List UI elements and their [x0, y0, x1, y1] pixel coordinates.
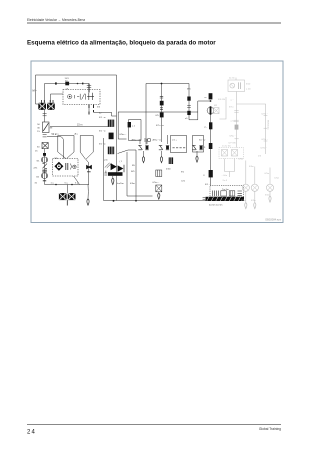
- footer rule: [27, 423, 281, 426]
- battery G1 symbol: [41, 157, 47, 163]
- tick marks below S1: [43, 135, 47, 137]
- tick below diode: [87, 171, 91, 173]
- svg-text:( m +: ( m +: [172, 140, 178, 142]
- svg-text:6/2w: 6/2w: [241, 200, 246, 202]
- svg-text:6/7w ~: 6/7w ~: [262, 139, 269, 141]
- X3 feed: [66, 185, 68, 194]
- relay K1 pin 87 tip2: [93, 110, 95, 112]
- tick marks 15: [43, 114, 47, 116]
- transistor T2: [118, 165, 124, 172]
- ghost lamp1 ground: [245, 203, 247, 209]
- module A7 top blobs: [109, 133, 114, 140]
- svg-text:a 2m: a 2m: [246, 89, 251, 91]
- relay K1 pin 87: [93, 105, 95, 109]
- ghost main column: [236, 92, 238, 148]
- wire pi right leg Z: [189, 84, 198, 120]
- relay K2 housing B: [80, 136, 93, 153]
- ghost dashed box: [219, 148, 244, 159]
- svg-text:6/5w: 6/5w: [239, 159, 244, 161]
- capacitor-like double bar: [42, 170, 47, 172]
- relay K1 terminal bars: [87, 93, 94, 100]
- ghost L link: [220, 97, 227, 119]
- motor stub comp: [205, 93, 213, 99]
- ghost lamp1 tail: [245, 191, 247, 202]
- svg-text:~ 6/m: ~ 6/m: [222, 175, 228, 177]
- comp P dark: [209, 122, 212, 129]
- wire bus 50 stub: [51, 93, 64, 95]
- inner unit comp: [128, 122, 131, 127]
- ghost lamp3 ground: [269, 196, 271, 202]
- starter lock X-box: [42, 143, 48, 149]
- ghost relay M2 box: [214, 108, 219, 114]
- svg-text:6/1 ~: 6/1 ~: [205, 184, 211, 186]
- bottom bus 31: [104, 200, 208, 202]
- ground teardrop row4: [196, 151, 198, 162]
- transistor T1: [111, 163, 117, 170]
- row comp dark k: [169, 157, 173, 164]
- ghost dbox pins: [225, 159, 235, 178]
- funnel wires into M5 connector: [58, 152, 74, 159]
- svg-text:6/2w: 6/2w: [265, 195, 270, 197]
- junction dot bus31 b: [71, 184, 73, 186]
- ghost unit bars: [238, 82, 240, 89]
- relay K1 coil symbol: [68, 94, 72, 98]
- svg-text:6/5 GN: 6/5 GN: [218, 99, 225, 101]
- svg-text:m 2w 5m: m 2w 5m: [222, 146, 231, 148]
- svg-text:hm/5m: hm/5m: [117, 183, 124, 185]
- wire S1 terminal 50 run: [47, 137, 64, 159]
- valve aux circle: [73, 165, 77, 169]
- ghost lamp H2: [251, 184, 258, 191]
- header rule: [27, 22, 281, 25]
- S comp dark2: [160, 112, 164, 117]
- svg-text:4w 6m 1w 5m: 4w 6m 1w 5m: [209, 205, 223, 207]
- S tick2: [160, 108, 163, 110]
- right inner column comp1: [156, 170, 162, 177]
- ghost dbox comp2: [232, 150, 238, 157]
- bar left marks: [203, 197, 206, 199]
- fuse F3: [108, 147, 114, 155]
- right inner column comp2: [156, 185, 162, 192]
- ghost lamp H3: [266, 184, 273, 191]
- fuse diagonal element: [43, 164, 48, 169]
- ghost branch east: [237, 104, 266, 154]
- svg-text:24: 24: [27, 430, 36, 436]
- svg-text:5w ~w: 5w ~w: [199, 140, 206, 142]
- svg-text:Eletricidade Veicular → Merced: Eletricidade Veicular → Mercedes-Benz: [27, 18, 85, 22]
- comp switch9: [204, 143, 212, 149]
- ghost lamp feed3: [269, 168, 271, 185]
- svg-text:6/1 ~w: 6/1 ~w: [99, 131, 106, 133]
- wire top supply bus 30: [36, 74, 117, 76]
- diode pair on drop: [86, 165, 92, 170]
- svg-text:m: m: [205, 97, 207, 99]
- wire drop X1 pin a: [44, 84, 46, 103]
- svg-text:a 5w: a 5w: [231, 121, 236, 123]
- fuse F1: [65, 82, 69, 86]
- battery G2 symbol: [41, 173, 47, 179]
- Tm comp2: [221, 191, 227, 196]
- svg-text:6/Tu ~w: 6/Tu ~w: [156, 125, 164, 127]
- wire relay output to main column: [94, 112, 117, 116]
- chain end tick: [43, 180, 46, 182]
- ghost col tick3: [235, 138, 239, 140]
- valve coil bars: [66, 163, 68, 170]
- right inner column teardrop: [158, 192, 160, 199]
- figure frame: [31, 61, 283, 223]
- motor M5 diamond: [54, 162, 63, 171]
- inner unit box: [129, 120, 142, 141]
- connector ticks on relay feed: [87, 86, 91, 88]
- ghost col comp: [235, 125, 239, 130]
- svg-text:6/1w: 6/1w: [265, 173, 270, 175]
- ignition switch S1: [43, 122, 53, 133]
- wire to motor branch: [198, 100, 211, 102]
- wire chain column: [44, 149, 46, 185]
- sensor column S: [161, 84, 163, 143]
- chain blob: [43, 153, 46, 156]
- svg-text:C/m: C/m: [181, 181, 185, 183]
- Tm comp1: [213, 191, 219, 197]
- svg-text:6/1 ~w: 6/1 ~w: [99, 117, 106, 119]
- wire valve pin arc to bus31: [74, 176, 80, 185]
- ghost top unit box: [228, 80, 245, 92]
- main column fuse feed: [116, 75, 118, 201]
- comp on feed leg2: [187, 111, 190, 115]
- Tm terminal dashed box: [210, 186, 244, 198]
- connector bar hatched: [206, 197, 245, 201]
- ghost col ticks: [234, 110, 238, 112]
- svg-text:Global Training: Global Training: [259, 427, 281, 431]
- connector X1 pin stubs: [42, 100, 54, 103]
- ghost dbox comp1: [222, 150, 228, 157]
- wire ignition feed: [44, 110, 46, 122]
- ghost unit coil: [230, 83, 235, 88]
- ghost lamp H1: [242, 184, 249, 191]
- wire ground bus 31: [45, 184, 90, 186]
- wire left drop to connector X1: [36, 75, 39, 104]
- motor M2 circle: [207, 106, 214, 114]
- ground teardrop row1: [142, 151, 144, 163]
- module box left edge: [118, 112, 126, 139]
- svg-text:6/1 ~w: 6/1 ~w: [99, 144, 106, 146]
- right feed bus pi: [146, 83, 189, 85]
- module left edge: [103, 138, 105, 201]
- connector X3 plug pair: [59, 193, 76, 200]
- comp on feed leg: [187, 97, 190, 101]
- fuse F2: [108, 120, 114, 127]
- svg-text:4/5m: 4/5m: [166, 169, 171, 171]
- junction marks bus2: [55, 82, 83, 84]
- ghost lamp feed1: [245, 161, 247, 185]
- relay K1 pin 86 tip: [88, 84, 90, 93]
- ghost lamp3 tail: [269, 191, 271, 196]
- svg-text:Esquema elétrico da alimentaçã: Esquema elétrico da alimentação, bloquei…: [27, 39, 216, 46]
- wire diag to mid column: [118, 150, 137, 201]
- module inner partition: [127, 152, 153, 196]
- svg-text:lw 2m: lw 2m: [229, 78, 235, 80]
- switch row cluster2: [159, 135, 169, 150]
- relay K1 pin 85: [88, 105, 90, 109]
- junction dot bus31 a: [55, 184, 57, 186]
- module box top edge: [118, 111, 198, 113]
- svg-text:6/5w: 6/5w: [249, 166, 254, 168]
- inner unit marks right: [144, 139, 150, 142]
- switch row box3: [171, 136, 187, 153]
- ground module teardrop: [112, 176, 114, 185]
- ghost lamp2 ground: [254, 203, 256, 209]
- ground W1 teardrop: [87, 185, 89, 206]
- relay K1 contact: [77, 94, 86, 100]
- transistor arrows: [105, 163, 112, 168]
- ghost east ticks: [264, 116, 268, 141]
- svg-text:15 m: 15 m: [77, 124, 82, 127]
- relay K2 housing A: [58, 136, 74, 153]
- S comp tick: [160, 96, 163, 98]
- X3 tail: [66, 200, 68, 205]
- comp lower dark: [209, 170, 213, 177]
- svg-text:6/5m ~: 6/5m ~: [120, 134, 127, 136]
- svg-text:a/m: a/m: [104, 160, 108, 162]
- svg-text:6/2w: 6/2w: [251, 200, 256, 202]
- junction dot main: [113, 200, 115, 202]
- svg-text:4/5m: 4/5m: [130, 183, 135, 185]
- ghost lamp2 tail: [254, 191, 256, 202]
- wire terminal 30 bus: [50, 126, 113, 128]
- svg-text:W26/10m: W26/10m: [267, 120, 269, 130]
- wire bus 15 to relay: [45, 83, 90, 85]
- svg-text:6/7w ~: 6/7w ~: [262, 114, 269, 116]
- junction dot pi: [161, 83, 163, 85]
- junction dot motor: [210, 100, 212, 102]
- ghost col tick2: [235, 120, 239, 122]
- svg-text:2w 5: 2w 5: [223, 180, 228, 182]
- driver bar: [108, 172, 123, 176]
- wire funnel B drop: [86, 159, 89, 184]
- connector X1 plug pair: [38, 103, 55, 110]
- Tm comp4: [238, 191, 242, 196]
- ground teardrop row2: [160, 151, 162, 163]
- relay K1 pin 85 stub: [88, 108, 90, 115]
- valve contact arc: [70, 164, 71, 170]
- junction dot mid: [135, 200, 137, 202]
- switch row box4: [193, 136, 204, 153]
- wire pi left leg: [145, 84, 147, 145]
- ghost lamp feed2: [254, 167, 256, 185]
- Tm comp3: [229, 191, 235, 196]
- svg-text:C/5w: C/5w: [274, 178, 279, 180]
- svg-text:2/m: 2/m: [34, 168, 38, 170]
- svg-text:6/7 GN: 6/7 GN: [229, 143, 236, 145]
- svg-text:6/7w ~: 6/7w ~: [261, 148, 268, 150]
- feed leg ticks: [187, 106, 191, 108]
- shutoff valve housing dashed: [53, 159, 79, 177]
- ghost unit stub: [235, 78, 237, 81]
- S comp dark: [160, 101, 164, 106]
- box3 dashes: [173, 147, 186, 149]
- switch row cluster1: [138, 139, 148, 150]
- wire drop X2 pin: [50, 94, 52, 102]
- svg-text:6/5a ~: 6/5a ~: [230, 136, 237, 138]
- switch row cluster4: [192, 145, 203, 149]
- motor branch column: [210, 115, 212, 186]
- relay K1 pin 85 tip2: [88, 112, 90, 115]
- relay K1 aux mark: [74, 95, 76, 98]
- svg-text:6/1m ~: 6/1m ~: [153, 182, 160, 184]
- relay K1 dashed housing: [63, 90, 100, 105]
- zener marks: [104, 171, 107, 175]
- funnel wires B: [80, 152, 93, 159]
